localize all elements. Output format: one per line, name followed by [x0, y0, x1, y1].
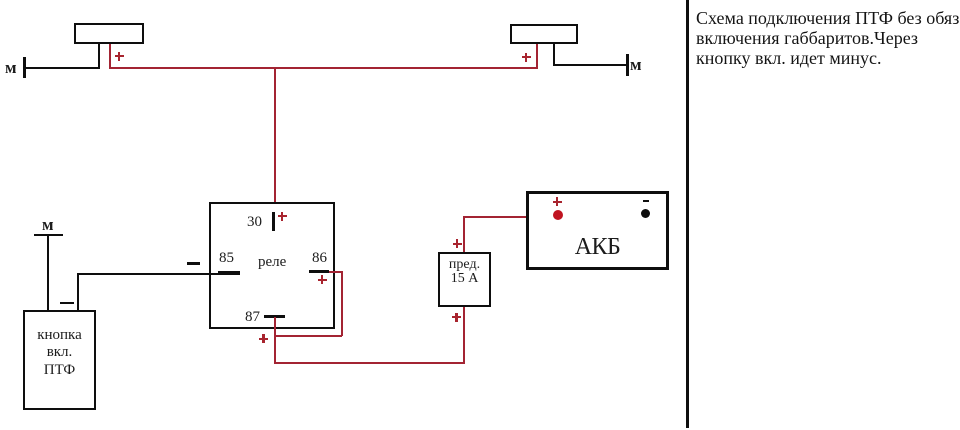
pin 86 label — [312, 250, 327, 267]
FL1 plus polarity label — [115, 52, 124, 61]
wire: FL2 minus lead vertical — [553, 44, 555, 66]
minus polarity dash at pin 85 — [187, 262, 200, 265]
battery plus label — [553, 197, 562, 206]
pin 87 stub — [264, 315, 285, 318]
FL2 plus polarity label — [522, 53, 531, 62]
wire: FL2 plus lead vertical (red) — [536, 44, 538, 69]
pin 85 label — [219, 250, 234, 267]
pin 87 label — [245, 309, 260, 326]
battery GB1 box — [526, 191, 669, 270]
wire: red from pin 86 exit horizontal — [329, 271, 342, 273]
wire: red fuse top vertical — [463, 217, 465, 252]
battery label АКБ — [526, 234, 669, 261]
fog lamp FL1 (left) — [74, 23, 144, 44]
wire: switch to ground vertical — [47, 236, 49, 311]
panel divider line — [686, 0, 689, 428]
wire: main red bus horizontal — [109, 67, 538, 69]
fuse F1 box — [438, 252, 491, 307]
wire: switch to relay horizontal — [77, 273, 218, 275]
ground terminal bar M (right) — [626, 54, 629, 76]
switch S1 box (кнопка вкл. ПТФ) — [23, 310, 96, 410]
battery minus label — [643, 200, 649, 202]
wire: red pin 86 down vertical — [341, 271, 343, 336]
wire: red 86-to-87 horizontal junction — [274, 335, 342, 337]
fuse value label — [438, 258, 491, 286]
ground terminal bar M (switch) — [34, 234, 63, 237]
minus polarity dash at switch — [60, 302, 74, 305]
wire: switch to relay vertical — [77, 273, 79, 311]
relay K1 box — [209, 202, 335, 329]
pin 30 label — [247, 214, 262, 231]
note text — [696, 8, 960, 68]
pin 86 plus label — [318, 275, 327, 284]
battery minus terminal dot — [641, 209, 650, 218]
pin 85 stub — [218, 271, 240, 275]
ground label м (right) — [630, 55, 642, 75]
fuse plus label top — [453, 239, 462, 248]
battery plus terminal dot — [553, 210, 563, 220]
wire: red riser to fuse bottom — [463, 307, 465, 364]
fog lamp FL2 (right) — [510, 24, 578, 44]
ground label м (switch) — [42, 215, 54, 235]
wire: FL2 minus lead horizontal — [553, 64, 627, 66]
ground terminal bar M (left) — [23, 57, 26, 78]
wire: FL1 plus lead vertical (red) — [109, 44, 111, 68]
wire: FL1 minus lead horizontal — [24, 67, 100, 69]
wire: red bottom bus horizontal — [274, 362, 465, 364]
wire: red drop from bus to relay pin 30 — [274, 68, 276, 213]
pin 30 plus label — [278, 212, 287, 221]
wire: red pin 87 down vertical — [274, 317, 276, 364]
pin 30 stub — [272, 212, 275, 231]
fuse plus label bottom — [452, 313, 461, 322]
wire: FL1 minus lead vertical — [98, 44, 100, 69]
relay label реле — [258, 254, 286, 271]
pin 86 stub — [309, 270, 329, 273]
wire: red fuse to battery horizontal — [463, 216, 559, 218]
ground label м (left) — [5, 58, 17, 78]
pin 87 plus label — [259, 334, 268, 343]
switch label — [23, 327, 96, 379]
